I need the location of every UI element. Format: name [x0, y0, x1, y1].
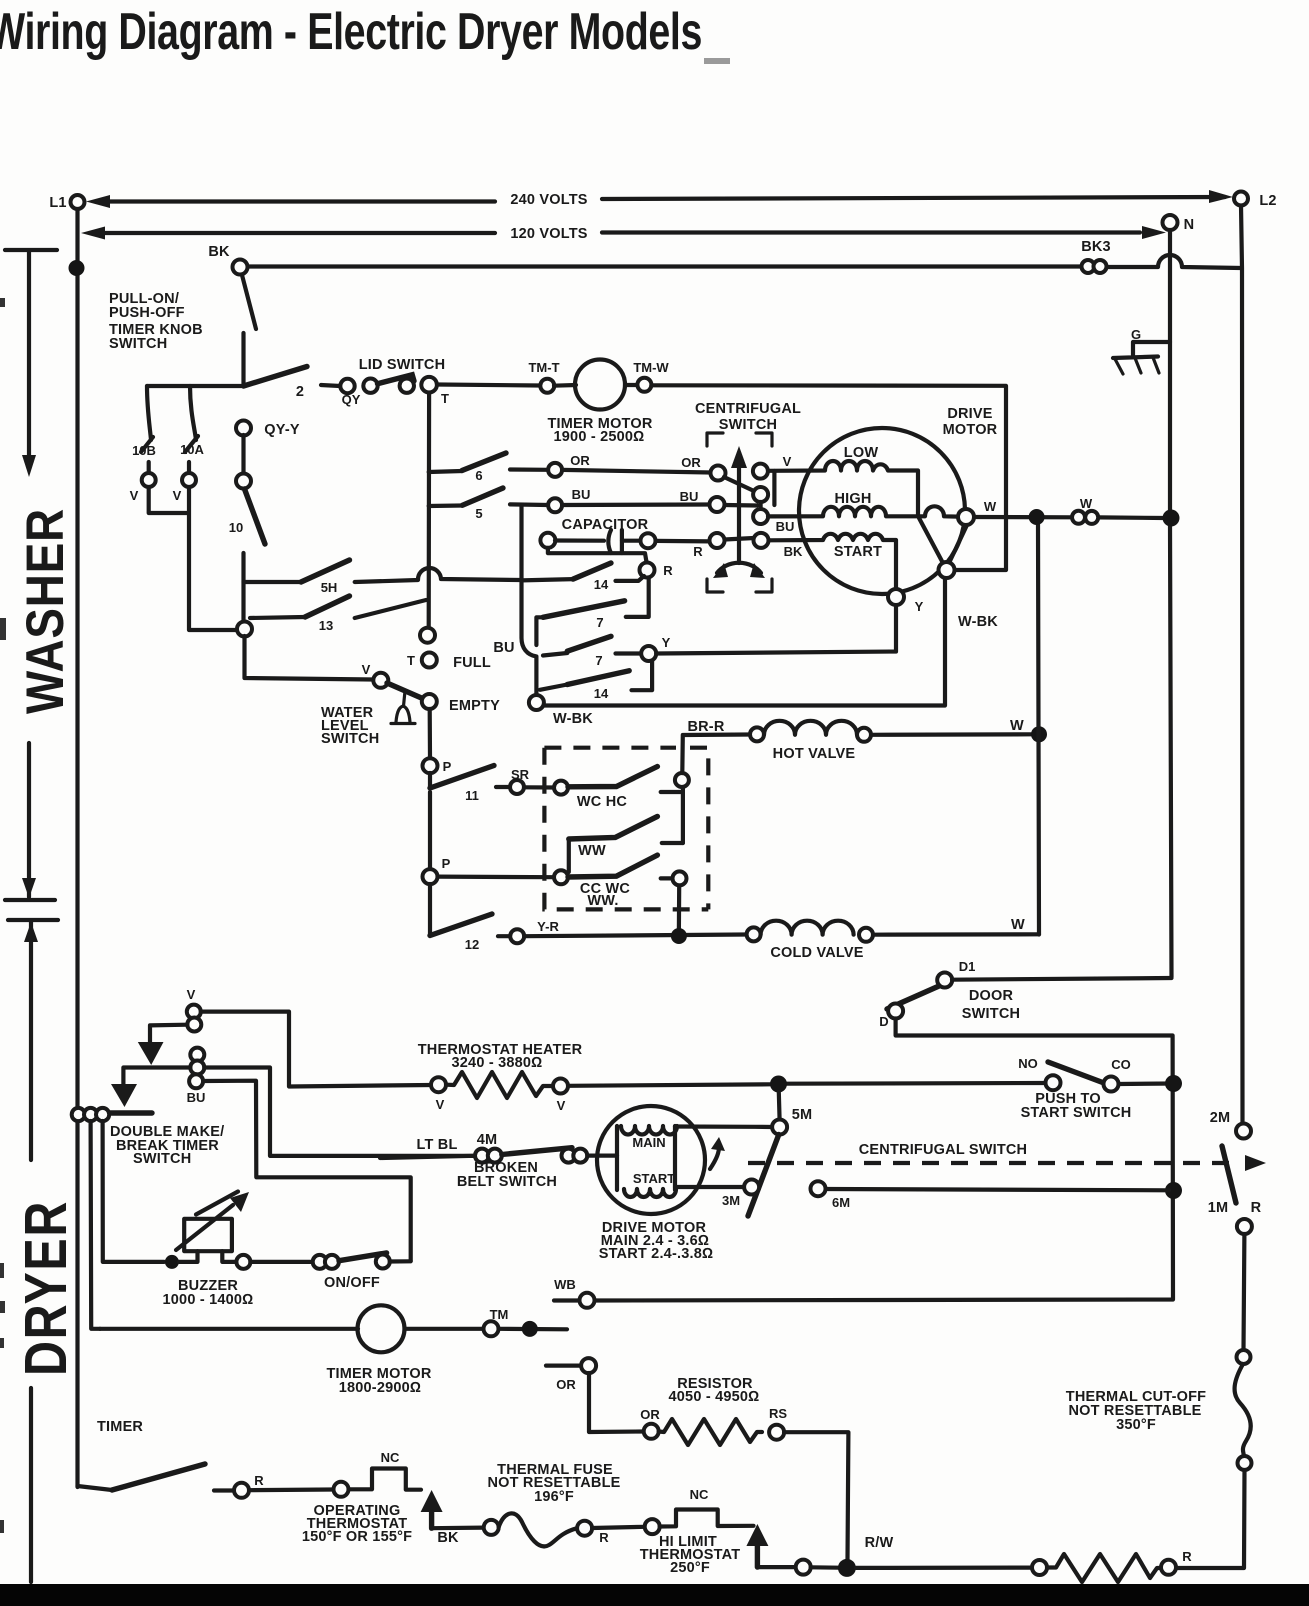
svg-text:Wiring Diagram - Electric Drye: Wiring Diagram - Electric Dryer Models: [0, 3, 702, 61]
terminal EMPTY: [422, 694, 500, 714]
svg-text:Y: Y: [915, 599, 924, 614]
svg-text:BK: BK: [437, 1530, 459, 1546]
svg-text:DOOR: DOOR: [969, 988, 1014, 1004]
svg-text:COLD VALVE: COLD VALVE: [770, 945, 863, 961]
svg-text:R: R: [663, 563, 673, 578]
svg-text:SWITCH: SWITCH: [133, 1151, 191, 1167]
wire timer motor to drive motor box: [651, 385, 1006, 570]
connector W pair: [1072, 496, 1098, 524]
svg-text:TM-W: TM-W: [633, 360, 669, 375]
contact 11: [430, 766, 494, 804]
svg-text:R: R: [1251, 1200, 1262, 1216]
dryer drive motor: [597, 1106, 725, 1262]
terminal W-BK left: [529, 695, 593, 727]
terminal TM-W: [633, 360, 669, 392]
wire empty to P: [428, 709, 432, 758]
svg-text:L1: L1: [49, 195, 66, 211]
wire Y row: [656, 604, 896, 654]
arrow hi limit: [746, 1524, 768, 1567]
svg-text:DRIVE: DRIVE: [947, 406, 992, 422]
svg-text:BK3: BK3: [1081, 239, 1111, 255]
wire SR to WC HC: [524, 785, 554, 789]
wire 1M down to thermal cutoff: [1241, 1234, 1246, 1350]
terminal V motor: [753, 454, 792, 479]
contact 14 upper: [522, 563, 645, 592]
wire P to CC WC: [438, 874, 555, 879]
bottom scan bar: [0, 1584, 1309, 1606]
dashed box water valve switches: [544, 748, 708, 910]
pull-on push-off timer knob switch label: [109, 291, 203, 352]
wire CO to junction: [1119, 1081, 1174, 1086]
wire main left vertical rail: [75, 209, 79, 1487]
svg-text:T: T: [441, 391, 449, 406]
svg-text:OR: OR: [556, 1377, 576, 1392]
svg-text:11: 11: [465, 788, 479, 803]
svg-text:SWITCH: SWITCH: [109, 336, 167, 352]
terminal CO: [1104, 1057, 1131, 1092]
title: [0, 3, 730, 64]
terminal Y node: [641, 635, 670, 661]
low winding: [768, 445, 918, 516]
svg-text:START 2.4-.3.8Ω: START 2.4-.3.8Ω: [599, 1246, 714, 1262]
svg-text:Y-R: Y-R: [537, 919, 559, 934]
svg-text:WC HC: WC HC: [577, 794, 627, 810]
svg-text:R: R: [599, 1530, 609, 1545]
svg-text:V: V: [783, 454, 792, 469]
svg-text:W: W: [1080, 496, 1093, 511]
junction dot below L1: [69, 260, 85, 276]
lid switch label: [359, 357, 446, 373]
scan specks left edge: [0, 298, 6, 1533]
svg-text:TIMER: TIMER: [97, 1419, 143, 1435]
svg-text:NC: NC: [381, 1450, 400, 1465]
svg-text:WB: WB: [554, 1277, 576, 1292]
svg-text:250°F: 250°F: [670, 1560, 710, 1576]
terminal BR-R node: [675, 773, 689, 787]
junction CO right rail: [1165, 1075, 1182, 1092]
svg-text:BELT SWITCH: BELT SWITCH: [457, 1174, 557, 1190]
wire BR-R node vertical: [681, 787, 685, 843]
lid switch contacts: [321, 375, 449, 407]
terminal OR upper: [546, 1358, 596, 1392]
svg-text:1000 - 1400Ω: 1000 - 1400Ω: [163, 1292, 254, 1308]
wire BU vertical: [493, 505, 536, 695]
svg-text:BU: BU: [187, 1090, 206, 1105]
wire start switch row: [786, 1081, 1046, 1086]
thermostat heater: [418, 1042, 770, 1113]
svg-text:G: G: [1131, 327, 1141, 342]
svg-text:T: T: [407, 653, 415, 668]
junction W at drop: [1029, 509, 1045, 525]
svg-text:W: W: [1010, 718, 1024, 734]
terminal BU' motor: [753, 509, 794, 534]
svg-text:BU: BU: [776, 519, 795, 534]
svg-text:120 VOLTS: 120 VOLTS: [510, 226, 587, 242]
high winding: [768, 491, 924, 516]
svg-text:BU: BU: [680, 489, 699, 504]
terminal N: [1163, 215, 1195, 233]
switch 5H: [244, 560, 520, 595]
double make break switch label: [110, 1124, 224, 1167]
svg-text:R: R: [254, 1473, 264, 1488]
terminal 3M: [722, 1180, 759, 1209]
wire V circles to node: [149, 487, 240, 630]
arrow operating thermostat: [421, 1490, 443, 1528]
svg-text:START: START: [834, 544, 882, 560]
svg-text:5H: 5H: [321, 580, 338, 595]
wire BK rail: [248, 255, 1241, 268]
svg-text:CENTRIFUGAL SWITCH: CENTRIFUGAL SWITCH: [859, 1142, 1027, 1158]
resistor 4050: [640, 1376, 787, 1445]
wire BR-R riser: [682, 719, 750, 773]
arrow B double make: [111, 1084, 137, 1107]
svg-text:2M: 2M: [1210, 1110, 1231, 1126]
svg-text:V: V: [557, 1098, 566, 1113]
centrifugal switch curved arrow: [713, 563, 765, 578]
wire D1 to N rail: [952, 978, 1172, 980]
terminal R centrifugal: [710, 533, 725, 548]
contact WW: [569, 816, 683, 872]
terminal BK: [208, 244, 247, 275]
wire BU mid left to arrow B: [123, 1068, 190, 1085]
wire T vertical: [427, 393, 432, 629]
svg-text:10B: 10B: [132, 443, 156, 458]
wire BU mid right branch: [204, 1068, 474, 1156]
contact 6: [429, 453, 591, 483]
wire RW row: [757, 1535, 893, 1575]
terminal CC node: [673, 871, 687, 885]
terminal D1: [937, 959, 975, 988]
terminal TM-T: [528, 360, 559, 393]
terminal D: [879, 1004, 903, 1030]
svg-text:ON/OFF: ON/OFF: [324, 1275, 380, 1291]
centrifugal switch label washer: [695, 401, 801, 433]
wire timer motor branch vertical: [91, 1121, 100, 1329]
contact 12: [430, 884, 492, 952]
operating thermostat: [249, 1450, 421, 1545]
wire timer knob vertical: [147, 333, 244, 386]
svg-text:MAIN: MAIN: [632, 1135, 665, 1150]
wire QY-Y to contact 10: [241, 435, 245, 474]
svg-text:4050 - 4950Ω: 4050 - 4950Ω: [669, 1389, 760, 1405]
svg-text:L2: L2: [1259, 193, 1276, 209]
svg-text:LID SWITCH: LID SWITCH: [359, 357, 446, 373]
washer section bracket: [5, 250, 57, 900]
svg-text:SWITCH: SWITCH: [321, 731, 379, 747]
svg-text:BU: BU: [572, 487, 591, 502]
terminal WB: [554, 1277, 595, 1308]
terminal V left: [130, 462, 156, 503]
wire L2 rail vertical: [1241, 206, 1243, 1125]
switch 13: [250, 596, 426, 633]
contact 7 lower: [543, 636, 641, 668]
svg-text:SWITCH: SWITCH: [962, 1006, 1020, 1022]
wire OR to resistor: [589, 1373, 643, 1432]
svg-text:350°F: 350°F: [1116, 1417, 1156, 1433]
dryer V terminal pair: [187, 987, 202, 1032]
connector BK3: [1081, 239, 1111, 273]
svg-text:TM-T: TM-T: [528, 360, 559, 375]
terminal 5M: [772, 1107, 812, 1135]
svg-text:R: R: [1182, 1549, 1192, 1564]
svg-text:LOW: LOW: [844, 445, 879, 461]
wire 6M row: [826, 1189, 1170, 1190]
svg-text:D1: D1: [959, 959, 976, 974]
svg-text:14: 14: [594, 577, 609, 592]
svg-text:W: W: [1011, 917, 1025, 933]
contact 10: [229, 474, 265, 545]
svg-text:WW: WW: [578, 843, 606, 859]
wire W drop vertical: [1038, 524, 1039, 935]
contact 7 upper: [536, 601, 624, 645]
double make break terminals: [72, 1108, 152, 1121]
timer motor washer: [547, 360, 652, 446]
svg-text:WASHER: WASHER: [16, 508, 75, 714]
WASHER label: [16, 508, 75, 714]
svg-text:196°F: 196°F: [534, 1489, 574, 1505]
svg-text:R/W: R/W: [865, 1535, 894, 1551]
svg-text:V: V: [173, 488, 182, 503]
dryer timer motor: [100, 1305, 484, 1396]
junction 6M right rail: [1165, 1182, 1182, 1199]
svg-text:BK: BK: [208, 244, 230, 260]
thermal cut-off: [1066, 1350, 1252, 1470]
centrifugal blade dryer: [748, 1135, 779, 1217]
svg-text:10A: 10A: [180, 442, 204, 457]
svg-text:BU: BU: [493, 640, 514, 656]
svg-text:RS: RS: [769, 1406, 787, 1421]
svg-text:OR: OR: [640, 1407, 660, 1422]
wire buzzer branch vertical: [103, 1121, 164, 1262]
capacitor: [540, 517, 710, 559]
svg-text:START: START: [633, 1171, 675, 1186]
buzzer: [163, 1192, 254, 1309]
svg-text:CO: CO: [1111, 1057, 1131, 1072]
terminal NO: [1018, 1056, 1060, 1090]
drive motor circle washer: [799, 406, 998, 594]
wire 10B branch: [132, 386, 156, 458]
junction Y-R: [671, 928, 687, 944]
node circle 13: [237, 622, 252, 637]
svg-text:3M: 3M: [722, 1193, 740, 1208]
cold valve: [747, 917, 1039, 961]
svg-text:PUSH-OFF: PUSH-OFF: [109, 305, 185, 321]
terminal 2M: [1210, 1110, 1251, 1139]
centrifugal blade OR: [724, 477, 754, 491]
terminal R node: [640, 563, 674, 579]
centrifugal blade R: [725, 538, 755, 540]
water level switch label: [321, 705, 379, 747]
terminal W-BK motor: [939, 562, 999, 630]
bottom resistor: [856, 1549, 1192, 1582]
svg-text:MOTOR: MOTOR: [943, 422, 998, 438]
switch 2 blade: [244, 367, 308, 401]
centrifugal switch brackets: [707, 433, 772, 592]
terminal L1: [49, 195, 84, 211]
dashed centrifugal switch line dryer: [748, 1142, 1266, 1171]
junction RW: [838, 1559, 856, 1577]
ground G: [1113, 327, 1170, 374]
wire W row: [974, 517, 1164, 518]
svg-text:D: D: [879, 1014, 888, 1029]
terminal QY-Y: [236, 421, 300, 439]
svg-text:1M: 1M: [1208, 1200, 1229, 1216]
junction W at N rail: [1163, 510, 1180, 527]
door switch blade: [887, 986, 1020, 1022]
wire 240V rail: [86, 190, 1233, 208]
svg-text:QY: QY: [342, 392, 361, 407]
terminal 6M: [811, 1181, 851, 1210]
wire contact6 to centrifugal OR: [562, 470, 711, 473]
terminal W motor: [958, 499, 997, 525]
terminal 1M: [1208, 1200, 1262, 1234]
motor triangle diagonals: [919, 518, 967, 565]
contact WC HC: [554, 767, 683, 811]
timer contact bottom: [78, 1419, 206, 1490]
svg-text:V: V: [436, 1097, 445, 1112]
svg-text:START SWITCH: START SWITCH: [1021, 1105, 1132, 1121]
terminal P upper: [423, 758, 452, 774]
svg-text:LT BL: LT BL: [417, 1137, 458, 1153]
terminal BK motor: [754, 533, 803, 559]
svg-text:BR-R: BR-R: [687, 719, 724, 735]
svg-text:EMPTY: EMPTY: [449, 698, 500, 714]
wire lid switch to timer motor: [437, 385, 540, 386]
terminal P lower: [423, 856, 451, 884]
wire D to right rail: [594, 1019, 1173, 1301]
dryer section bracket: [8, 920, 58, 1582]
svg-text:7: 7: [595, 653, 602, 668]
svg-text:14: 14: [594, 686, 609, 701]
contact 5: [429, 487, 591, 521]
svg-text:OR: OR: [681, 455, 701, 470]
dryer BU terminal trio: [187, 1048, 206, 1105]
arrow A double make: [138, 1042, 164, 1065]
svg-text:7: 7: [596, 615, 603, 630]
svg-text:W-BK: W-BK: [553, 711, 593, 727]
wire Y-R row: [524, 935, 746, 937]
contact T FULL: [407, 628, 491, 671]
svg-text:240 VOLTS: 240 VOLTS: [510, 192, 587, 208]
junction TM dot: [522, 1321, 538, 1337]
start winding: [769, 534, 897, 590]
junction hot valve W: [1031, 726, 1047, 742]
wire contact10 lower vertical: [241, 553, 245, 622]
wire 120V rail: [81, 226, 1166, 242]
terminal TM: [484, 1307, 568, 1336]
svg-text:CENTRIFUGAL: CENTRIFUGAL: [695, 401, 801, 417]
svg-text:HIGH: HIGH: [834, 491, 871, 507]
svg-text:6M: 6M: [832, 1195, 850, 1210]
wire V lower to arrow A: [150, 1025, 187, 1042]
svg-text:5: 5: [475, 506, 482, 521]
svg-text:V: V: [362, 662, 371, 677]
wire start to 3M: [675, 1185, 744, 1189]
centrifugal blade BU: [725, 503, 758, 508]
wire BU low right branch: [203, 1081, 411, 1261]
switch blade timer knob: [242, 275, 256, 329]
svg-text:BK: BK: [784, 544, 803, 559]
svg-text:5M: 5M: [792, 1107, 813, 1123]
wire P column: [428, 792, 432, 869]
terminal V right: [173, 462, 196, 503]
wire W-BK row: [544, 577, 945, 706]
svg-text:HOT VALVE: HOT VALVE: [773, 746, 856, 762]
svg-text:W-BK: W-BK: [958, 614, 998, 630]
water level switch blade: [387, 683, 433, 724]
terminal V water level: [362, 662, 389, 688]
svg-text:V: V: [130, 488, 139, 503]
wire 5M stub: [777, 1092, 782, 1120]
terminal OR centrifugal: [681, 455, 725, 481]
wire N vertical rail: [1170, 230, 1172, 977]
terminal Y motor: [888, 589, 924, 614]
svg-text:2: 2: [296, 384, 304, 400]
wire R node to contact 7 upper: [626, 578, 649, 617]
contact 14 lower: [540, 661, 652, 701]
terminal L2: [1234, 192, 1277, 210]
terminal R timer: [214, 1473, 264, 1498]
svg-text:FULL: FULL: [453, 655, 491, 671]
svg-text:P: P: [443, 759, 452, 774]
wire contact5 to centrifugal BU: [562, 502, 710, 507]
wire high hop to W: [925, 506, 958, 516]
svg-text:NC: NC: [690, 1487, 709, 1502]
svg-text:NO: NO: [1018, 1056, 1038, 1071]
svg-text:SWITCH: SWITCH: [719, 417, 777, 433]
hi limit thermostat: [592, 1487, 753, 1576]
svg-text:4M: 4M: [477, 1132, 498, 1148]
junction 5M node: [770, 1076, 787, 1093]
svg-text:DRYER: DRYER: [13, 1200, 79, 1376]
svg-text:R: R: [693, 544, 703, 559]
blade 2M 1M: [1222, 1146, 1236, 1203]
wire V stub: [772, 471, 776, 505]
wire main to 5M: [675, 1124, 772, 1129]
wire RS to bottom: [784, 1432, 848, 1560]
svg-text:N: N: [1184, 217, 1195, 233]
svg-text:P: P: [442, 856, 451, 871]
on off switch: [236, 1253, 410, 1291]
terminal SR: [496, 767, 530, 794]
svg-text:CAPACITOR: CAPACITOR: [562, 517, 649, 533]
wire thermal cutoff to bottom: [1176, 1470, 1245, 1568]
svg-text:V: V: [187, 987, 196, 1002]
svg-text:Y: Y: [662, 635, 671, 650]
svg-text:6: 6: [475, 468, 482, 483]
terminal Y-R left: [498, 919, 559, 943]
wire 10A branch: [180, 386, 204, 457]
svg-text:W: W: [984, 499, 997, 514]
svg-text:1800-2900Ω: 1800-2900Ω: [339, 1380, 421, 1396]
svg-text:1900 - 2500Ω: 1900 - 2500Ω: [554, 429, 645, 445]
push to start switch label: [1021, 1091, 1132, 1121]
push to start blade: [1048, 1062, 1104, 1083]
svg-text:3240 - 3880Ω: 3240 - 3880Ω: [452, 1055, 543, 1071]
thermal fuse: [432, 1462, 621, 1546]
svg-text:WW.: WW.: [587, 893, 618, 909]
broken belt switch: [380, 1132, 617, 1190]
terminal BU centrifugal: [680, 489, 725, 512]
svg-text:12: 12: [465, 937, 479, 952]
svg-text:150°F OR 155°F: 150°F OR 155°F: [302, 1529, 412, 1545]
svg-text:QY-Y: QY-Y: [264, 422, 300, 438]
svg-text:10: 10: [229, 520, 243, 535]
wire V to heater: [201, 1012, 431, 1087]
wire CC node to Y-R junction: [677, 886, 681, 929]
wire capacitor branch to R node: [548, 548, 647, 562]
water level switch lead: [245, 636, 374, 680]
